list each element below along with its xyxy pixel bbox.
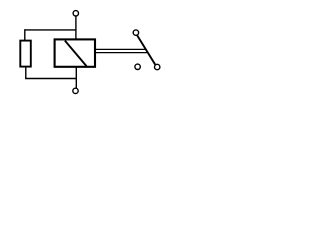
switch NO terminal xyxy=(135,64,140,69)
terminal pin 1 xyxy=(73,11,78,16)
relay coil K1 xyxy=(55,39,95,66)
wire xyxy=(25,78,77,80)
wire xyxy=(25,29,77,31)
switch lever xyxy=(137,35,156,65)
resistor R1 xyxy=(20,41,31,67)
wire xyxy=(75,16,77,40)
terminal pin 2 xyxy=(73,88,78,93)
wire xyxy=(25,66,27,79)
switch NC terminal xyxy=(155,64,160,69)
wire xyxy=(75,67,77,89)
switch common terminal xyxy=(133,30,138,35)
wire xyxy=(24,29,26,41)
actuator link xyxy=(95,49,148,52)
